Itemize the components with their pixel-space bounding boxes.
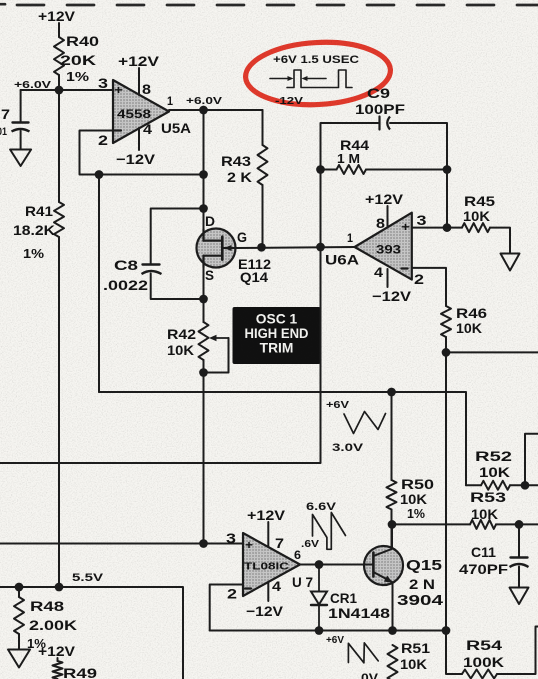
- wire pin4: [138, 128, 140, 150]
- wire 5.5V net: [0, 587, 183, 679]
- resistor R41: [13, 202, 64, 261]
- resistor R49: [53, 661, 98, 679]
- 5.5V annotation: [72, 572, 104, 584]
- wire: [203, 299, 205, 322]
- resistor R52 10K: [475, 449, 512, 490]
- wire tap to left edge: [0, 247, 321, 463]
- resistor R48 2.00K 1%: [14, 597, 78, 651]
- op-amp U7 body TL081C: [243, 533, 300, 596]
- wire collector: [391, 525, 393, 547]
- dashed frame top edge: [0, 3, 538, 7]
- node: [199, 539, 208, 548]
- wire: [525, 434, 538, 486]
- 6.6V annotation: [306, 501, 337, 513]
- wire: [518, 524, 520, 557]
- node: [515, 520, 524, 529]
- plus input mark: [114, 85, 123, 97]
- wire: [446, 170, 448, 228]
- capacitor C11 470PF: [459, 545, 529, 577]
- wire: [320, 170, 322, 248]
- ground (C7): [10, 150, 31, 167]
- pin 3 label: [98, 76, 108, 91]
- wire: [20, 131, 22, 150]
- wire C8 top: [151, 209, 204, 265]
- -12V label (U6A): [372, 289, 412, 304]
- wire: [57, 658, 59, 661]
- wire pin3 net: [0, 543, 243, 545]
- plus input mark: [245, 540, 253, 552]
- -12V label (U7): [246, 604, 284, 619]
- +12V label (R49 top): [38, 644, 76, 659]
- node +6.0V: [14, 80, 63, 94]
- -12V annotation: [275, 96, 303, 107]
- minus input mark: [115, 129, 122, 131]
- node: [442, 348, 451, 357]
- ground (R45): [501, 254, 520, 271]
- resistor R53 10K: [470, 490, 506, 529]
- wire: [518, 567, 520, 588]
- resistor R45 10K: [462, 194, 495, 232]
- pin 3 label: [417, 213, 427, 228]
- 3.0V annotation: [332, 442, 364, 454]
- pin 4 label: [272, 579, 281, 594]
- wire: [496, 523, 538, 525]
- pin 1 label: [347, 233, 354, 245]
- resistor R51 10K: [388, 641, 431, 679]
- +12V label (U7): [247, 508, 286, 523]
- wire: [321, 169, 337, 171]
- .6V annotation: [301, 539, 319, 550]
- wire: [203, 373, 205, 544]
- pulse waveform: [270, 70, 352, 88]
- wire: [58, 23, 60, 37]
- resistor R40: [54, 34, 99, 84]
- pin 3 label: [226, 531, 236, 546]
- wire: [391, 510, 393, 548]
- wire pin2 loop: [210, 585, 243, 631]
- wire pin7: [267, 522, 269, 547]
- node: [316, 165, 325, 174]
- node: [442, 626, 451, 635]
- red annotation ellipse: [244, 39, 392, 109]
- resistor R42 10K (trimpot): [167, 322, 229, 373]
- wire: [490, 228, 510, 254]
- wire C9 top: [321, 123, 379, 170]
- wire R46 tap: [446, 351, 538, 353]
- transistor Q15 2N3904: [364, 546, 443, 609]
- wire: [262, 185, 264, 247]
- wire feedback pin2: [80, 131, 204, 175]
- node: [443, 223, 452, 232]
- +6V 1.5 USEC annotation: [273, 54, 359, 66]
- +12V label (U6A): [365, 192, 404, 207]
- wire bus: [99, 392, 466, 485]
- wire pin3: [412, 227, 462, 229]
- node: [199, 170, 208, 179]
- transistor Q14 E112 (JFET): [197, 214, 272, 285]
- node: [315, 560, 324, 569]
- wire: [58, 90, 60, 202]
- +12V supply label (R40 top): [38, 9, 76, 24]
- node: [388, 626, 397, 635]
- wire: [392, 523, 470, 525]
- wire bottom rail: [210, 630, 446, 632]
- wire: [366, 169, 447, 171]
- pin 4 label: [143, 122, 152, 137]
- resistor R46 10K: [441, 306, 487, 337]
- wire C8 bottom: [151, 274, 204, 300]
- pin 6 label: [294, 550, 301, 562]
- triangle waveform: [344, 412, 386, 434]
- pin 2 label: [414, 272, 424, 287]
- node: [443, 165, 452, 174]
- resistor R44 1M: [337, 138, 370, 174]
- +12V label (U5A): [118, 54, 160, 69]
- wire: [18, 634, 20, 650]
- pin 1 label: [167, 96, 174, 108]
- pin 2 label: [98, 133, 108, 148]
- sawtooth waveform: [348, 643, 378, 663]
- wire: [58, 75, 60, 90]
- node: [315, 626, 324, 635]
- node +6.0V output: [186, 96, 222, 114]
- wire gate net: [236, 247, 355, 248]
- minus input mark: [245, 587, 251, 589]
- node: [199, 368, 208, 377]
- pin 8 label: [142, 82, 151, 97]
- node: [15, 583, 24, 592]
- wire pin8: [387, 206, 389, 226]
- wire pin2: [412, 268, 446, 306]
- node: [316, 243, 325, 252]
- pin 4 label: [374, 265, 383, 280]
- wire: [445, 337, 447, 631]
- wire source: [203, 267, 205, 322]
- node: [95, 170, 104, 179]
- +6V annotation: [326, 635, 344, 646]
- wire: [18, 587, 20, 597]
- resistor R43: [221, 145, 268, 185]
- wire: [391, 392, 393, 480]
- U7 designator: [292, 575, 313, 591]
- OSC 1 HIGH END TRIM callout box: [233, 307, 321, 364]
- wire: [390, 123, 447, 170]
- +6V annotation: [326, 400, 349, 411]
- capacitor C8 .0022: [103, 258, 162, 293]
- ground (C11): [510, 588, 529, 605]
- wire emitter: [392, 583, 394, 631]
- node: [257, 243, 266, 252]
- wire: [510, 484, 538, 486]
- wire output: [300, 564, 365, 566]
- sawtooth waveform: [313, 513, 346, 550]
- wire: [203, 360, 205, 373]
- wire: [203, 110, 205, 229]
- node: [387, 388, 396, 397]
- pin 8 label: [376, 216, 385, 231]
- wire pin8: [138, 68, 140, 95]
- wire: [21, 89, 113, 91]
- node: [55, 583, 64, 592]
- node: [388, 520, 397, 529]
- pin 2 label: [227, 587, 237, 602]
- minus input mark: [402, 267, 408, 269]
- node: [199, 295, 208, 304]
- wire: [446, 631, 462, 675]
- U5A designator: [161, 121, 191, 137]
- resistor R54 100K: [462, 638, 505, 679]
- 0V annotation: [361, 673, 378, 679]
- wire: [262, 110, 264, 145]
- wire pin3 input: [59, 89, 113, 91]
- wire pin4: [387, 269, 389, 287]
- wire pin4: [267, 582, 269, 601]
- wire: [497, 627, 538, 675]
- pin 7 label: [275, 536, 284, 551]
- wire: [20, 90, 22, 122]
- op-amp U6A body 393: [355, 213, 412, 280]
- capacitor C9 100PF: [355, 86, 405, 130]
- op-amp U5A body 4558: [113, 80, 169, 143]
- resistor R50 10K 1%: [387, 477, 435, 521]
- U6A designator: [325, 253, 359, 269]
- node: [521, 481, 530, 490]
- node: [199, 204, 208, 213]
- capacitor C7 value .01 (partial labels): [0, 107, 30, 138]
- plus input mark: [401, 222, 410, 234]
- diode CR1 1N4148: [311, 565, 390, 631]
- wire: [58, 237, 60, 587]
- wire: [466, 484, 481, 486]
- wire output: [169, 109, 263, 111]
- -12V label (U5A): [116, 152, 156, 167]
- ground (R48): [8, 650, 30, 668]
- wire feedback-left vertical: [98, 175, 100, 393]
